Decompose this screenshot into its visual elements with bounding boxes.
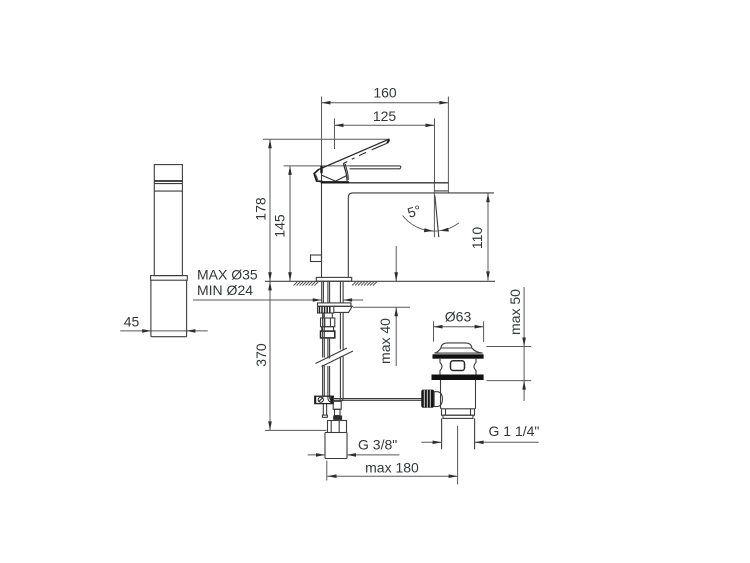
svg-text:125: 125 bbox=[373, 108, 397, 124]
svg-text:160: 160 bbox=[373, 85, 397, 101]
drain top flange bbox=[435, 348, 483, 353]
spout tip bottom edge bbox=[434, 190, 448, 192]
extension line 125 left bbox=[334, 119, 336, 150]
drain dome cap bbox=[441, 343, 472, 348]
dimension 370 bbox=[253, 281, 272, 430]
lever pivot right diagonal bbox=[336, 176, 347, 181]
countertop hatching left bbox=[294, 282, 319, 286]
svg-text:Ø63: Ø63 bbox=[445, 309, 472, 325]
dimension 110 bbox=[469, 193, 490, 280]
5 degree arc arrows bbox=[424, 228, 433, 232]
mounting nut plate bbox=[318, 303, 352, 306]
extension line lever underside y165.9 bbox=[284, 165, 350, 167]
svg-text:110: 110 bbox=[469, 227, 485, 250]
svg-text:max 50: max 50 bbox=[507, 289, 523, 335]
drain tailpipe bbox=[442, 418, 475, 449]
extension line drain centerline bbox=[457, 426, 459, 485]
lever tip wedge bbox=[387, 140, 389, 143]
countertop line bbox=[265, 280, 495, 282]
drain side connector cylinder bbox=[434, 392, 442, 407]
spout underside and 110 extension bbox=[353, 192, 494, 194]
5 degree reference vertical bbox=[433, 183, 435, 237]
drain gasket 2 bbox=[432, 375, 484, 381]
pop-up rod vertical bbox=[323, 313, 327, 415]
drain mid body bbox=[440, 359, 476, 375]
hose end body G38 bbox=[325, 433, 347, 459]
supply hoses vertical bbox=[328, 313, 343, 403]
dimension max 40 bbox=[377, 246, 398, 366]
hose end hex nut bbox=[328, 421, 347, 433]
horizontal pop-up rod to drain bbox=[333, 399, 422, 401]
mounting nut knurled part bbox=[318, 306, 334, 313]
dimension 160 bbox=[322, 85, 449, 105]
adapter stack under nut bbox=[321, 313, 335, 338]
extension line 160 left bbox=[321, 97, 323, 168]
svg-text:max 180: max 180 bbox=[365, 460, 419, 476]
mounting horseshoe tab bbox=[334, 306, 352, 312]
dimension max 50 bbox=[486, 287, 531, 401]
countertop hatching right bbox=[352, 282, 377, 286]
pop-up rod end cap bbox=[322, 415, 327, 417]
rod clamp bbox=[315, 396, 334, 403]
extension line top of lever y139 bbox=[263, 138, 390, 140]
lever bar top bbox=[350, 165, 400, 167]
lever bar bottom bbox=[350, 166, 401, 169]
spout top edge bbox=[322, 182, 448, 184]
svg-text:178: 178 bbox=[253, 197, 269, 221]
dimension O63 bbox=[434, 309, 484, 342]
svg-text:MIN Ø24: MIN Ø24 bbox=[197, 282, 253, 298]
faucet side tab bbox=[311, 255, 322, 262]
dimension 125 bbox=[335, 108, 435, 127]
lever tip face bbox=[387, 139, 389, 143]
5 degree arc bbox=[403, 216, 459, 232]
side view shank bbox=[151, 280, 187, 337]
svg-text:G 1 1/4": G 1 1/4" bbox=[489, 423, 540, 439]
lever blade top edge bbox=[319, 139, 389, 169]
svg-text:max 40: max 40 bbox=[377, 318, 393, 364]
5 degree tilted line bbox=[435, 196, 439, 238]
lever left cap bbox=[314, 169, 322, 181]
lever neck curve bbox=[344, 163, 348, 181]
svg-text:G 3/8": G 3/8" bbox=[358, 437, 397, 453]
extension line hose left bbox=[326, 461, 328, 481]
lever pivot bottom bar bbox=[321, 181, 349, 183]
lever pivot lower-left diagonal bbox=[322, 175, 336, 181]
lever pivot column dark segment bbox=[320, 166, 322, 173]
lever neck curve outer bbox=[345, 164, 348, 180]
svg-text:45: 45 bbox=[124, 313, 140, 329]
side view faucet body bbox=[154, 165, 182, 276]
faucet base plate bbox=[316, 277, 351, 281]
drain side connector knurled nut bbox=[421, 390, 434, 408]
supply pipes below base bbox=[322, 281, 343, 303]
dimension 178 bbox=[253, 139, 272, 281]
dimension 145 bbox=[272, 166, 292, 281]
extension line nut bottom y307.3 bbox=[353, 306, 410, 308]
pipe break symbol bbox=[316, 348, 354, 367]
faucet column right edge bbox=[348, 193, 353, 278]
dimension max 180 bbox=[328, 460, 458, 478]
extension line hose end y430.4 bbox=[265, 429, 327, 431]
drain gasket 1 bbox=[433, 354, 484, 358]
lever left cap inner line bbox=[316, 175, 318, 181]
dimension G 3/8 bbox=[308, 453, 400, 457]
extension line 160 right / spout tip face bbox=[447, 97, 449, 193]
dimension 45 bbox=[120, 313, 207, 332]
drain bottom nut bbox=[442, 409, 475, 419]
svg-text:MAX Ø35: MAX Ø35 bbox=[197, 266, 258, 282]
dimension hole diameter bbox=[193, 298, 363, 302]
dimension G 1 1/4 bbox=[421, 441, 538, 445]
svg-text:370: 370 bbox=[253, 343, 269, 367]
hose end fitting neck bbox=[333, 401, 342, 420]
side view base plate bbox=[151, 276, 188, 281]
drain lower body bbox=[441, 380, 476, 409]
extension line 125 right bbox=[434, 119, 436, 184]
faucet column left edge bbox=[321, 167, 323, 277]
svg-text:145: 145 bbox=[272, 214, 288, 238]
lever blade lower edge dash-dot bbox=[344, 143, 388, 163]
